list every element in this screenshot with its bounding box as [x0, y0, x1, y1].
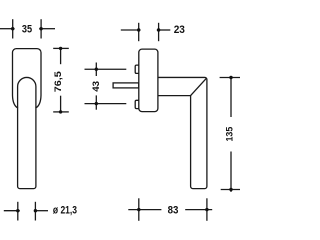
dim 76,5: line upper segment [60, 48, 62, 64]
dim 35: left extension [12, 19, 14, 38]
dim 76,5: line lower segment [60, 96, 62, 112]
side view top screw lug [135, 65, 139, 73]
side view bottom screw lug [135, 100, 139, 108]
dim 43: bottom dot [95, 102, 98, 105]
dim 23: left dot [137, 28, 140, 31]
dim 23: left extension [138, 23, 140, 41]
svg-text:83: 83 [168, 205, 179, 217]
side view spindle [113, 83, 139, 88]
dim 43: bottom line [85, 103, 127, 105]
dim 35: right extension [40, 19, 42, 38]
svg-text:35: 35 [22, 24, 33, 36]
svg-text:76,5: 76,5 [53, 71, 63, 92]
svg-text:43: 43 [91, 81, 101, 92]
dim 83: left overhang [128, 209, 161, 211]
dim o21,3: left dot [16, 209, 19, 212]
dim 76,5: top dot [59, 47, 62, 50]
side view arm and down lever outline [158, 77, 207, 188]
dim o21,3: right extension [34, 202, 36, 221]
front view outer contour [12, 49, 41, 189]
svg-text:ø 21,3: ø 21,3 [53, 205, 77, 217]
dim 76,5: bottom tick [53, 111, 69, 113]
svg-text:135: 135 [224, 127, 234, 142]
dim 35: right line [39, 28, 55, 30]
dim 43: top line [85, 68, 127, 70]
dim 135: line upper segment [230, 78, 232, 118]
svg-text:23: 23 [174, 24, 185, 36]
dim 83: right segment [185, 209, 212, 211]
dim 83: left dot [137, 208, 140, 211]
side view bend mitre diagonal [191, 78, 207, 96]
dim o21,3: right line [34, 210, 48, 212]
dim o21,3: left line [4, 210, 20, 212]
dim 43: line lower segment [95, 95, 97, 109]
dim 135: top tick [220, 77, 240, 79]
dim 83: left extension [138, 198, 140, 221]
dim 135: top dot [229, 76, 232, 79]
dim 43: line upper segment [95, 63, 97, 77]
dim 23: left line [121, 29, 141, 31]
dim 35: left dot [11, 27, 14, 30]
technical drawing: window handle, two views with dimensions [0, 0, 240, 240]
dim 76,5: bottom dot [59, 110, 62, 113]
dim 135: bottom tick [221, 189, 240, 191]
dim 23: right line [157, 29, 171, 31]
front view inner arch (grip tangent line) [18, 77, 36, 107]
dim 35: left line [0, 28, 15, 30]
dim 23: right dot [157, 28, 160, 31]
dim 83: right dot [205, 208, 208, 211]
dim 23: right extension [158, 23, 160, 41]
dim 43: top dot [95, 68, 98, 71]
dim 135: bottom dot [229, 188, 232, 191]
side view body (grip seen edge-on) [139, 49, 158, 112]
dim o21,3: right dot [34, 209, 37, 212]
dim 135: line lower segment [230, 152, 232, 192]
dim o21,3: left extension [17, 202, 19, 221]
dim 35: right dot [39, 27, 42, 30]
dim 83: right extension [206, 198, 208, 221]
dim 76,5: top tick [53, 47, 69, 49]
